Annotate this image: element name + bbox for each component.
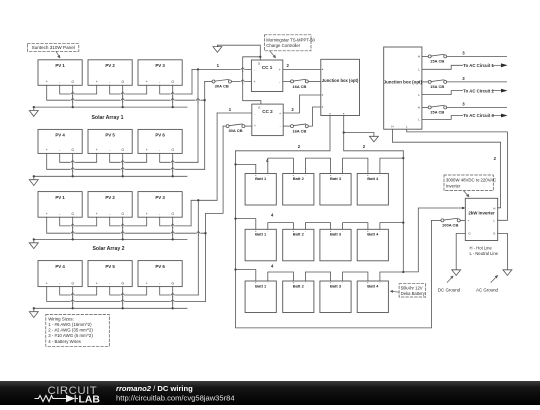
- wire: inverter DC ground to DC Ground symbol: [456, 233, 465, 269]
- node flag To AC Circuit 3: [463, 113, 494, 118]
- CircuitLab logo: [35, 385, 101, 406]
- wire: AC circuit 2 hot through 15A breaker (node 3): [422, 81, 428, 83]
- svg-text:+: +: [96, 281, 98, 285]
- svg-text:-: -: [109, 212, 110, 216]
- svg-text:+: +: [46, 281, 48, 285]
- solar panel PV 6 (row4): [138, 261, 182, 287]
- ground symbol DC Ground: [452, 270, 461, 276]
- svg-text:15A CB: 15A CB: [430, 84, 444, 89]
- svg-text:+: +: [46, 148, 48, 152]
- wires battery bank 1: bus node 4 and series links: [236, 158, 404, 173]
- wire: node 1 to CC 2: [217, 112, 252, 114]
- wire: breaker to CC2 + input: [245, 125, 252, 127]
- svg-text:+: +: [146, 148, 148, 152]
- svg-text:Solar Array 2: Solar Array 2: [92, 246, 124, 252]
- svg-text:-: -: [59, 80, 60, 84]
- annotation Suntech 310W Panel label: [28, 44, 79, 52]
- svg-text:Solar Array 1: Solar Array 1: [91, 115, 123, 121]
- wire: array1 + to breaker: [205, 81, 212, 83]
- svg-text:-: -: [109, 148, 110, 152]
- circuit breaker 100A CB (battery): [441, 218, 460, 227]
- label Solar Array 1: [91, 115, 123, 121]
- wires row1: series links, + bus, ground bus: [34, 85, 205, 107]
- wire junction dots: [33, 56, 464, 310]
- ground symbol AC Ground: [503, 270, 512, 276]
- annotation H/L line note: [470, 246, 499, 257]
- wire: node 1 to CC 1: [192, 68, 251, 70]
- circuit breaker 15A CB (circuit 2): [428, 80, 447, 89]
- svg-text:Deka Battery: Deka Battery: [401, 291, 426, 296]
- ground symbol row2: [29, 176, 38, 185]
- svg-text:Batt 3: Batt 3: [330, 232, 342, 237]
- wires row3: series links, + bus, ground bus: [34, 217, 206, 239]
- wire: 16A breaker staircase to junction box pin 4: [308, 107, 321, 126]
- wire: inverter H output staircase to AC junction box: [392, 129, 500, 208]
- svg-text:LAB: LAB: [79, 394, 101, 405]
- solar panel PV 6 (row2): [138, 129, 182, 153]
- solar panel PV 2 (row1): [88, 60, 132, 86]
- svg-text:H: H: [418, 106, 420, 110]
- svg-text:15A CB: 15A CB: [430, 109, 444, 114]
- svg-text:+: +: [279, 112, 281, 116]
- svg-text:4: 4: [271, 212, 274, 217]
- wire: + feed staircase to 30A CB (array 2): [206, 126, 224, 301]
- svg-text:http://circuitlab.com/cvg58jaw: http://circuitlab.com/cvg58jaw35r84: [116, 394, 235, 403]
- svg-text:Batt 1: Batt 1: [255, 283, 267, 288]
- svg-text:+: +: [146, 281, 148, 285]
- wire: battery positive riser and bottom rail to 100A CB: [236, 151, 432, 328]
- svg-text:PV 5: PV 5: [105, 133, 115, 138]
- solar panel PV 3 (row3): [138, 192, 182, 218]
- svg-text:-: -: [59, 148, 60, 152]
- wire: AC circuit 2 neutral to flag: [422, 91, 463, 95]
- circuit breaker 15A CB (circuit 3): [428, 105, 447, 114]
- svg-text:Batt 4: Batt 4: [367, 232, 379, 237]
- svg-text:Charge Controller: Charge Controller: [266, 43, 300, 48]
- battery Batt 2 (bank 1): [283, 174, 314, 206]
- wire crossing hops: [71, 67, 244, 304]
- svg-text:+: +: [254, 124, 256, 128]
- inverter U3 (2kW): [465, 198, 497, 240]
- wire: junction box ground branch: [344, 133, 374, 137]
- svg-text:30A CB: 30A CB: [228, 128, 242, 133]
- wire: bottom rail to 100A breaker: [432, 219, 441, 221]
- svg-text:+: +: [96, 212, 98, 216]
- solar panel PV 5 (row4): [88, 261, 132, 287]
- svg-text:Wiring Sizes:: Wiring Sizes:: [48, 317, 74, 322]
- svg-text:Batt 4: Batt 4: [367, 283, 379, 288]
- wire: AC circuit 3 hot through 15A breaker (node 3): [422, 106, 428, 108]
- svg-text:2: 2: [363, 144, 366, 149]
- svg-text:PV 5: PV 5: [105, 264, 115, 269]
- footer bar: [0, 381, 540, 405]
- svg-text:+: +: [468, 219, 470, 223]
- svg-text:Batt 3: Batt 3: [330, 176, 342, 181]
- svg-text:-: -: [109, 80, 110, 84]
- svg-text:-: -: [159, 148, 160, 152]
- svg-text:+: +: [254, 80, 256, 84]
- svg-text:AC Ground: AC Ground: [476, 288, 499, 293]
- battery Batt 2 (bank 3): [283, 281, 314, 313]
- svg-text:PV 3: PV 3: [155, 195, 165, 200]
- svg-text:DC Ground: DC Ground: [438, 288, 461, 293]
- wire: negative feed to inverter: [403, 208, 465, 272]
- svg-text:50kAhr 12V: 50kAhr 12V: [401, 285, 423, 290]
- wire: junction box + feed down to battery bus (node 2): [236, 116, 331, 151]
- svg-text:PV 6: PV 6: [155, 133, 165, 138]
- svg-text:1: 1: [229, 107, 232, 112]
- svg-text:-: -: [254, 112, 255, 116]
- battery Batt 4 (bank 2): [357, 229, 388, 260]
- svg-text:Suntech 310W Panel: Suntech 310W Panel: [32, 45, 75, 50]
- node flag To AC Circuit 2: [463, 88, 494, 93]
- svg-text:3: 3: [462, 50, 465, 55]
- svg-text:4: 4: [271, 263, 274, 268]
- wire: branch to row2 string negative: [197, 69, 199, 162]
- wires row4: series links, + bus, ground bus: [34, 287, 206, 309]
- annotation Morningstar charge controller label: [264, 35, 311, 51]
- svg-text:Batt 1: Batt 1: [255, 176, 267, 181]
- svg-text:2kW Inverter: 2kW Inverter: [468, 211, 495, 216]
- wires row2: series links, + bus, ground bus: [34, 153, 205, 176]
- arrow from Suntech label to PV 1: [56, 51, 59, 56]
- svg-text:rromano2 / DC wiring: rromano2 / DC wiring: [116, 384, 193, 393]
- op-amp/charge controller CC 2: [252, 104, 283, 136]
- wire: AC circuit 1 neutral to flag: [422, 65, 463, 69]
- solar panel PV 3 (row1): [138, 60, 182, 86]
- svg-text:2: 2: [291, 107, 294, 112]
- svg-text:3: 3: [462, 76, 465, 81]
- svg-text:PV 2: PV 2: [105, 63, 115, 68]
- battery Batt 2 (bank 2): [283, 229, 314, 260]
- svg-text:Batt 2: Batt 2: [293, 232, 305, 237]
- svg-text:-: -: [59, 212, 60, 216]
- annotation Deka battery label: [399, 284, 426, 297]
- svg-text:-: -: [468, 206, 469, 210]
- solar panel PV 1 (row1): [38, 60, 82, 86]
- label Solar Array 2: [92, 246, 124, 252]
- wire: CC1 - output to 16A breaker: [283, 80, 291, 82]
- svg-text:2: 2: [287, 63, 290, 68]
- svg-text:Batt 2: Batt 2: [293, 283, 305, 288]
- svg-text:To AC Circuit 1: To AC Circuit 1: [463, 63, 494, 68]
- svg-text:3: 3: [462, 101, 465, 106]
- wire: CC2 + output staircase to junction box pin 3 (node 2): [283, 95, 321, 113]
- svg-text:Junction box (opt): Junction box (opt): [322, 78, 359, 83]
- battery Batt 3 (bank 2): [320, 229, 351, 260]
- solar panel PV 5 (row2): [88, 129, 132, 153]
- wire: CC2 - output to 16A breaker: [283, 125, 290, 127]
- circuit breaker 16A CB (CC2 output): [291, 124, 309, 133]
- svg-text:H: H: [418, 80, 420, 84]
- circuit breaker 30A CB (array 2): [226, 124, 245, 133]
- wire: battery negative riser: [402, 151, 404, 272]
- op-amp/charge controller CC 1: [251, 60, 282, 92]
- wire: ground rail to top ground symbol: [217, 45, 260, 60]
- svg-text:2 - #2 AWG (35 mm^2): 2 - #2 AWG (35 mm^2): [48, 328, 93, 333]
- battery Batt 3 (bank 1): [320, 174, 351, 206]
- junction box U1 (DC combiner): [321, 59, 360, 115]
- wire: AC circuit 1 hot through 15A breaker (node 3): [422, 55, 428, 57]
- svg-text:-: -: [159, 281, 160, 285]
- svg-text:PV 3: PV 3: [155, 63, 165, 68]
- svg-text:Junction box (opt): Junction box (opt): [384, 80, 423, 85]
- svg-text:L - Neutral Line: L - Neutral Line: [470, 251, 499, 256]
- node labels: wire gauge numbers: [217, 50, 497, 268]
- svg-text:PV 1: PV 1: [55, 63, 65, 68]
- solar panel PV 2 (row3): [88, 192, 132, 218]
- battery Batt 1 (bank 1): [245, 174, 276, 206]
- wire: AC circuit 3 neutral to flag: [422, 116, 463, 120]
- svg-text:4 - Battery Wires: 4 - Battery Wires: [48, 339, 81, 344]
- label DC Ground with arrow: [438, 288, 461, 293]
- circuit breaker 16A CB (CC1 output): [291, 79, 309, 89]
- ground symbol row3: [29, 239, 38, 248]
- svg-text:+: +: [46, 80, 48, 84]
- svg-text:16A CB: 16A CB: [292, 128, 306, 133]
- svg-text:100A CB: 100A CB: [442, 223, 458, 228]
- arrow from inverter label to inverter: [464, 191, 468, 196]
- wire: inverter chassis ground to AC Ground symbol: [498, 233, 508, 269]
- battery Batt 3 (bank 3): [320, 281, 351, 313]
- svg-text:PV 4: PV 4: [55, 133, 65, 138]
- wire: breaker to CC1 + input: [231, 81, 251, 83]
- svg-text:PV 6: PV 6: [155, 264, 165, 269]
- svg-text:+: +: [146, 80, 148, 84]
- wire: CC1 + output to junction box (node 2): [283, 68, 321, 70]
- battery Batt 4 (bank 1): [357, 174, 388, 206]
- wire: 16A breaker to junction box pin 2: [308, 80, 321, 82]
- ground symbol (charge controller ground): [213, 45, 222, 52]
- battery Batt 4 (bank 3): [357, 281, 388, 313]
- svg-text:2: 2: [494, 156, 497, 161]
- svg-text:-: -: [159, 212, 160, 216]
- node flag To AC Circuit 1: [463, 63, 494, 68]
- svg-text:15A CB: 15A CB: [430, 58, 444, 63]
- wire: CC2 ground link to CC1 ground stub: [243, 57, 261, 104]
- svg-text:-: -: [109, 281, 110, 285]
- label AC Ground with arrow: [476, 288, 499, 293]
- annotation Wiring Sizes note: [46, 315, 110, 347]
- svg-text:PV 2: PV 2: [105, 195, 115, 200]
- arrow from Deka label to Batt 4: [393, 291, 399, 294]
- svg-text:To AC Circuit 2: To AC Circuit 2: [463, 88, 494, 93]
- svg-text:H: H: [493, 206, 495, 210]
- svg-text:Inverter: Inverter: [446, 183, 461, 188]
- solar panel PV 4 (row4): [38, 261, 82, 287]
- wire: inverter L output staircase to AC junction box (node 2): [407, 129, 508, 220]
- annotation 3000W inverter label: [444, 175, 493, 191]
- svg-text:To AC Circuit 3: To AC Circuit 3: [463, 113, 494, 118]
- wires battery bank 2: bus node 4 and series links: [236, 219, 404, 230]
- solar panel PV 1 (row3): [38, 192, 82, 218]
- svg-text:-: -: [159, 80, 160, 84]
- svg-text:-: -: [59, 281, 60, 285]
- svg-text:Batt 3: Batt 3: [330, 283, 342, 288]
- solar panel PV 4 (row2): [38, 129, 82, 153]
- svg-text:3000W 48VDC to 220VAC: 3000W 48VDC to 220VAC: [446, 178, 496, 183]
- battery Batt 1 (bank 2): [245, 229, 276, 260]
- ground symbol row4: [29, 308, 38, 317]
- ground symbol (DC junction box): [369, 136, 378, 142]
- svg-text:+: +: [96, 80, 98, 84]
- wire: CC1 negative net riser (PV3 row1 link to node 1 wire): [191, 69, 193, 94]
- wire: CC2 negative net riser: [191, 113, 217, 295]
- svg-text:16A CB: 16A CB: [292, 84, 306, 89]
- svg-text:3 - #10 AWG (6 mm^2): 3 - #10 AWG (6 mm^2): [48, 333, 93, 338]
- svg-text:Batt 2: Batt 2: [293, 176, 305, 181]
- svg-text:4: 4: [266, 158, 269, 163]
- svg-text:1 - #6 AWG (16mm^2): 1 - #6 AWG (16mm^2): [48, 322, 92, 327]
- circuit breaker 30A CB (array 1): [212, 79, 231, 88]
- svg-text:+: +: [279, 68, 281, 72]
- svg-text:H - Hot Line: H - Hot Line: [470, 246, 493, 251]
- svg-text:30A CB: 30A CB: [215, 84, 229, 89]
- svg-text:Morningstar TS-MPPT-60: Morningstar TS-MPPT-60: [266, 37, 315, 42]
- svg-text:-: -: [254, 68, 255, 72]
- svg-text:+: +: [146, 212, 148, 216]
- svg-text:H: H: [418, 55, 420, 59]
- wire: + feed riser to 30A CB (array 1): [204, 82, 206, 170]
- junction box U2 (AC distribution): [384, 47, 422, 129]
- wire: 100A breaker to inverter + input: [460, 219, 465, 221]
- circuit breaker 15A CB (circuit 1): [428, 54, 447, 63]
- svg-text:CC 1: CC 1: [262, 65, 273, 70]
- svg-text:H: H: [391, 124, 393, 128]
- svg-text:CC 2: CC 2: [262, 109, 273, 114]
- svg-text:PV 1: PV 1: [55, 195, 65, 200]
- wires battery bank 3: bus node 4 and series links: [236, 270, 404, 282]
- wire: junction box - feed down to battery negative bus (node 2): [344, 116, 404, 151]
- battery Batt 1 (bank 3): [245, 281, 276, 313]
- ground symbol row1: [29, 107, 38, 116]
- svg-text:PV 4: PV 4: [55, 264, 65, 269]
- svg-text:-: -: [280, 124, 281, 128]
- svg-text:Batt 4: Batt 4: [367, 176, 379, 181]
- arrow from Morningstar label to CC 1: [270, 51, 275, 57]
- svg-text:+: +: [46, 212, 48, 216]
- wire: array2 + to breaker: [223, 125, 226, 127]
- svg-text:-: -: [279, 80, 280, 84]
- svg-text:2: 2: [298, 144, 301, 149]
- svg-text:Batt 1: Batt 1: [255, 232, 267, 237]
- svg-text:+: +: [96, 148, 98, 152]
- svg-text:1: 1: [217, 63, 220, 68]
